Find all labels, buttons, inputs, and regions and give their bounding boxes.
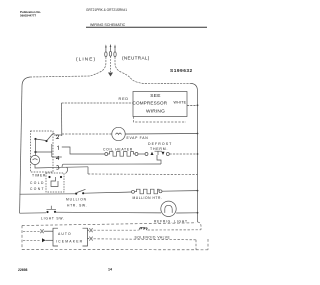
svg-text:AUTO: AUTO: [58, 232, 72, 236]
defrost therm contact right: [162, 152, 165, 155]
svg-text:14: 14: [108, 268, 112, 272]
mullion heater element: [135, 189, 160, 194]
wire white lead to right bus: [187, 105, 198, 107]
auto icemaker bracket right: [83, 228, 88, 246]
terminal 4 stub: [52, 156, 62, 158]
wire light row to right bus: [176, 212, 197, 214]
junction dot therm row: [197, 153, 199, 155]
svg-text:TIMER: TIMER: [32, 174, 46, 178]
icemaker enclosure top dashed: [22, 223, 196, 226]
light switch bar: [47, 206, 57, 210]
connector lead1 left pair: [41, 229, 44, 233]
wire below compressor box dashed: [134, 117, 187, 123]
connector lead2 right pair: [90, 237, 93, 241]
header model number text: [86, 8, 127, 12]
junction dot evap row: [197, 133, 199, 135]
timer motor bottom wire: [35, 165, 62, 168]
light switch dot right: [54, 211, 56, 213]
wire right bus into enclosure: [198, 222, 202, 230]
evap fan motor mark: [116, 133, 122, 135]
connector lead1 right pair: [90, 228, 93, 232]
wire lead2 to icemaker: [46, 239, 54, 241]
wire mid bus vertical: [61, 103, 63, 136]
label COIL HEATER: [103, 148, 133, 152]
defrost therm terminal left: [145, 153, 148, 156]
wire heater to therm: [138, 153, 145, 155]
terminal number 1: [57, 146, 58, 150]
label TIMER: [32, 174, 46, 178]
timer lower dot: [34, 151, 36, 153]
svg-text:COIL HEATER: COIL HEATER: [103, 148, 133, 152]
timer motor circle: [30, 155, 39, 164]
wire right bus corner arc: [191, 83, 198, 91]
cold control dot right: [60, 176, 62, 178]
svg-text:S199632: S199632: [170, 68, 193, 74]
defrost therm bimetal bar: [155, 151, 163, 155]
svg-text:DEFROST: DEFROST: [148, 142, 172, 146]
wire neutral prong to top-right horizontal: [115, 57, 191, 84]
coil heater terminal left: [105, 153, 108, 156]
label MULLION HTR SW: [66, 198, 87, 208]
wire terminal 3 row: [62, 166, 88, 169]
wire step down at x88: [87, 167, 89, 174]
defrost timer dashed box: [31, 131, 54, 172]
ground symbol arrow: [108, 73, 113, 77]
mullion switch dot right: [82, 192, 84, 194]
label AUTO ICEMAKER: [56, 232, 83, 244]
svg-text:MULLION: MULLION: [66, 198, 87, 202]
terminal number 4: [56, 156, 59, 160]
wire left bus vertical: [20, 86, 22, 213]
footer page number: [108, 268, 112, 272]
label SOLENOID VALVE: [135, 236, 171, 240]
svg-text:ICEMAKER: ICEMAKER: [56, 240, 83, 244]
wire cold control hook: [66, 167, 68, 173]
timer contact dot left: [34, 138, 36, 140]
refrig light filament: [165, 205, 172, 213]
wire light row from left bus: [20, 212, 46, 214]
wire therm return corner down: [62, 164, 63, 167]
power cord plug prong middle: [109, 44, 111, 56]
wire solenoid row right dashed: [148, 229, 202, 231]
label REFRIG LIGHT: [154, 219, 188, 223]
svg-text:THERM.: THERM.: [150, 147, 168, 151]
label WHITE: [174, 101, 187, 105]
wire icemaker lead1 right: [88, 229, 90, 231]
light switch dot left: [46, 211, 48, 213]
terminal number 3: [56, 166, 59, 170]
svg-text:22698: 22698: [18, 268, 28, 272]
junction dot mullion row: [197, 190, 199, 192]
auto icemaker bracket left: [53, 228, 58, 246]
icemaker enclosure bottom dashed: [22, 249, 208, 251]
wire therm to right bus dashed: [170, 153, 198, 155]
wire mullion mid: [84, 192, 131, 193]
header publication no text: [20, 10, 41, 17]
icemaker enclosure right dashed: [207, 239, 209, 250]
label EVAP FAN: [127, 136, 149, 140]
wire dashed row to right bus: [88, 173, 198, 176]
label COLD CONT: [30, 181, 45, 191]
wire therm drop jog: [157, 155, 161, 164]
timer contact dot right: [45, 140, 47, 142]
coil heater terminal right: [135, 153, 138, 156]
label DEFROST THERM: [148, 142, 172, 151]
terminal number 2: [56, 135, 59, 139]
power cord plug prong left: [105, 44, 107, 56]
wire icemaker lead2 right: [88, 238, 90, 240]
svg-text:COLD: COLD: [30, 181, 45, 185]
timer internal left vertical: [35, 139, 37, 156]
defrost therm contact left: [151, 152, 154, 155]
wire solenoid row dashed: [94, 229, 139, 231]
connector lead2 triangle: [42, 238, 46, 242]
svg-text:5995344777: 5995344777: [20, 14, 36, 18]
svg-text:HTR. SW.: HTR. SW.: [67, 204, 87, 208]
defrost therm terminal right: [166, 153, 169, 156]
svg-text:EVAP FAN: EVAP FAN: [127, 136, 149, 140]
timer internal right vertical: [51, 144, 53, 157]
label (NEUTRAL): [122, 56, 150, 61]
timer internal horizontal: [36, 151, 52, 153]
wire mullion row from left bus: [20, 193, 75, 195]
svg-text:COMPRESSOR: COMPRESSOR: [133, 101, 168, 106]
junction dot white lead: [197, 104, 199, 106]
mullion heater terminal left: [132, 190, 135, 193]
ground wire dashed: [110, 56, 112, 72]
svg-text:WIRING: WIRING: [146, 108, 165, 114]
label RED: [119, 97, 130, 101]
cold control dot left: [48, 176, 50, 178]
junction dot light row: [197, 212, 199, 214]
compressor wiring box: [133, 92, 187, 117]
header WIRING SCHEMATIC title: [90, 23, 126, 27]
refrig light lamp circle: [161, 201, 176, 216]
evap fan motor circle: [112, 127, 125, 140]
wire right bus vertical: [197, 91, 199, 222]
footer part number: [18, 268, 28, 272]
label LIGHT SW: [41, 217, 65, 221]
wire line prong to top-left horizontal: [30, 57, 106, 77]
wire lead2 row dashed to corner: [94, 239, 197, 240]
icemaker enclosure left dashed: [21, 226, 23, 250]
cold control dashed box: [46, 173, 64, 192]
node S199632 label: [170, 68, 193, 74]
svg-text:CONT: CONT: [30, 187, 45, 191]
cold control plunger: [51, 177, 58, 187]
mullion heater terminal right: [159, 190, 162, 193]
timer switch blade: [47, 134, 55, 141]
svg-text:SOLENOID VALVE: SOLENOID VALVE: [135, 236, 171, 240]
svg-text:(NEUTRAL): (NEUTRAL): [122, 56, 150, 61]
wire left bus corner arc: [22, 77, 30, 86]
label MULLION HTR: [133, 196, 163, 200]
power cord plug prong right: [114, 44, 116, 56]
svg-text:WHITE: WHITE: [174, 101, 187, 105]
wire terminal 1 step to heater row: [62, 147, 105, 154]
header underline: [86, 26, 207, 28]
wire lead1 to icemaker: [44, 230, 53, 232]
wire evap fan row right: [125, 133, 197, 136]
svg-text:SEE: SEE: [150, 93, 161, 99]
svg-text:LIGHT SW.: LIGHT SW.: [41, 217, 65, 221]
compressor box text: [133, 93, 168, 115]
mullion switch dot left: [75, 193, 77, 195]
wire evap fan row dashed left: [62, 133, 112, 135]
coil heater element: [108, 152, 135, 157]
wire red lead to compressor box: [62, 102, 134, 104]
terminal 2 stub: [54, 134, 62, 136]
solenoid valve coil: [139, 227, 147, 230]
svg-text:MULLION HTR.: MULLION HTR.: [133, 196, 163, 200]
svg-text:RED: RED: [119, 97, 130, 101]
wire mullion to right bus: [162, 190, 198, 193]
timer wire dot to dot: [36, 139, 47, 141]
svg-text:WIRING SCHEMATIC: WIRING SCHEMATIC: [90, 23, 126, 27]
label (LINE): [76, 57, 96, 62]
svg-text:GRT21PRK & GRT21SRK#1: GRT21PRK & GRT21SRK#1: [86, 8, 127, 12]
mullion switch blade: [77, 189, 86, 192]
wire icemaker lead1 left dashed: [23, 230, 40, 232]
wire icemaker lead2 left dashed: [23, 239, 40, 241]
timer motor mark: [33, 159, 38, 160]
wire therm return to bus left: [63, 163, 161, 165]
wire light row mid: [56, 211, 161, 214]
wire lead2 corner down dashed: [195, 240, 197, 250]
svg-text:(LINE): (LINE): [76, 57, 96, 62]
